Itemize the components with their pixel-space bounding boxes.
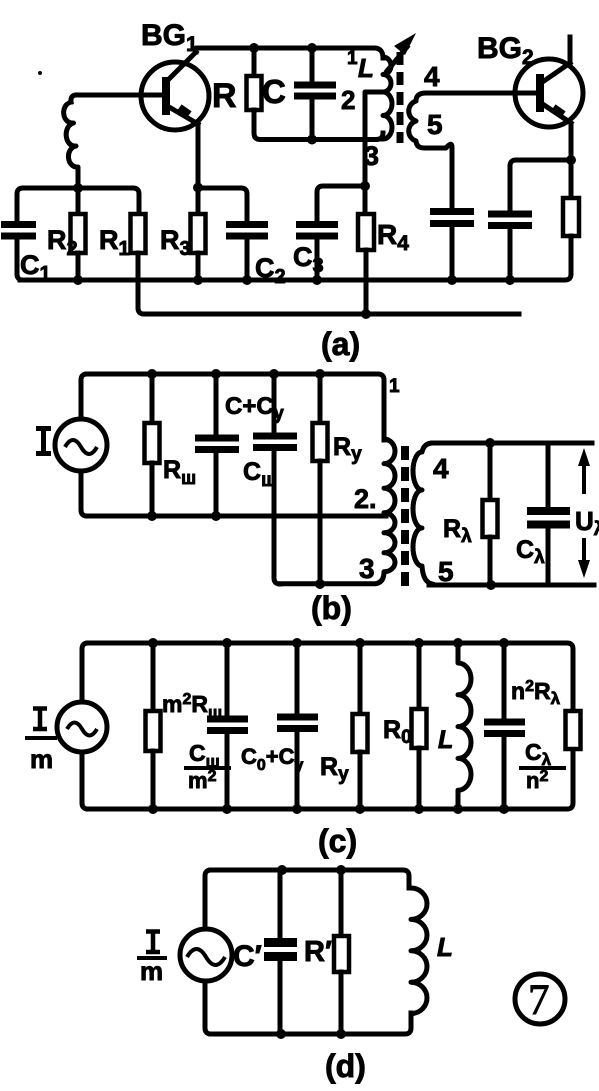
transistor BG2 bbox=[515, 59, 583, 127]
resistor R' bbox=[339, 870, 344, 936]
junction emitter cap bottom bbox=[505, 275, 515, 285]
svg-text:2.: 2. bbox=[354, 484, 377, 514]
junction Rsh top bbox=[147, 369, 157, 379]
junction R' top bbox=[336, 865, 346, 875]
capacitor on winding 5 lead bbox=[430, 212, 474, 224]
junction Rsh bottom bbox=[147, 511, 157, 521]
junction C+Cy bottom bbox=[211, 511, 221, 521]
wire source top (c) bbox=[82, 643, 88, 702]
junction Csh/m2 bottom bbox=[222, 804, 232, 814]
node dot emitter junction bbox=[566, 155, 576, 165]
inductor L (c) bbox=[458, 643, 471, 809]
tuning arrow bbox=[387, 47, 407, 71]
secondary top rail (b) bbox=[433, 441, 592, 446]
resistor m2Rsh bbox=[151, 643, 156, 711]
source I/m bbox=[57, 702, 107, 752]
capacitor Csh/m2 bbox=[225, 643, 230, 716]
svg-text:1: 1 bbox=[347, 48, 358, 69]
node dot emitter BG1 bbox=[193, 183, 203, 193]
svg-text:C′: C′ bbox=[233, 940, 262, 973]
wire Csh bottom to lower rail bbox=[274, 450, 280, 584]
resistor R1 bbox=[131, 214, 146, 253]
wire source bottom bbox=[81, 471, 87, 516]
svg-text:C: C bbox=[262, 73, 286, 110]
resistor R3 bbox=[196, 188, 201, 214]
resistor R2 bbox=[76, 188, 81, 214]
svg-text:L: L bbox=[438, 726, 453, 754]
capacitor C0+Cy bbox=[295, 643, 300, 714]
junction m2Rsh top bbox=[148, 638, 158, 648]
top rail (d) bbox=[211, 870, 409, 888]
bottom rail (d) bbox=[211, 1013, 411, 1034]
svg-text:R: R bbox=[212, 77, 237, 115]
capacitor C+Cy bbox=[214, 374, 219, 435]
junction R2 bottom bbox=[73, 275, 83, 285]
label I/m bbox=[33, 709, 47, 730]
wire to C2 bbox=[198, 188, 247, 222]
node dot C bottom bbox=[307, 135, 317, 145]
resistor n2Rl bbox=[566, 711, 581, 749]
wire source top (d) bbox=[205, 870, 211, 929]
left bias rail bbox=[17, 188, 139, 222]
svg-text:m: m bbox=[140, 956, 163, 986]
wire BG2 collector up bbox=[568, 37, 573, 64]
capacitor C3 bbox=[296, 225, 338, 237]
node dot C top bbox=[307, 43, 317, 53]
svg-text:7: 7 bbox=[528, 977, 550, 1024]
junction bypass cap bottom bbox=[447, 275, 457, 285]
junction C3 bottom bbox=[312, 275, 322, 285]
capacitor C bbox=[310, 48, 315, 139]
junction C' top bbox=[277, 865, 287, 875]
junction Csh top bbox=[269, 369, 279, 379]
node dot tap junction bbox=[360, 181, 370, 191]
capacitor emitter bypass BG2 bbox=[488, 214, 532, 226]
node dot Rl bottom bbox=[486, 580, 496, 590]
resistor emitter BG2 bbox=[569, 160, 574, 198]
node dot Rl top bbox=[485, 438, 495, 448]
node dot R top bbox=[249, 43, 259, 53]
capacitor C' bbox=[278, 870, 283, 938]
wire R bottom to winding bottom rail bbox=[254, 110, 383, 140]
svg-text:(b): (b) bbox=[311, 590, 352, 626]
node dot coil bottom bbox=[73, 183, 83, 193]
emitter line BG1 down bbox=[196, 124, 201, 187]
resistor Rl bbox=[488, 443, 493, 500]
source I bbox=[55, 419, 107, 471]
svg-text:R′: R′ bbox=[304, 936, 332, 968]
svg-text:L: L bbox=[358, 53, 374, 83]
junction R0 bottom bbox=[414, 804, 424, 814]
bottom rail (c) bbox=[88, 749, 573, 809]
secondary winding (b) bbox=[413, 443, 433, 584]
wire C3 top bbox=[317, 186, 365, 222]
junction Ry top (c) bbox=[355, 638, 365, 648]
inductor base coil bbox=[64, 102, 78, 188]
junction C2 bottom bbox=[242, 275, 252, 285]
bottom rail (a) bbox=[144, 312, 519, 317]
primary winding (b) bbox=[280, 439, 395, 584]
capacitor C2 bbox=[226, 225, 268, 237]
capacitor Cl bbox=[546, 443, 551, 508]
figure number 7 bbox=[515, 974, 565, 1024]
wire base lead and coil to BG1 base bbox=[71, 95, 163, 102]
inductor L (d) bbox=[411, 888, 427, 1014]
svg-text:L: L bbox=[437, 932, 453, 962]
junction C0+Cy top bbox=[292, 638, 302, 648]
wire source bottom (d) bbox=[205, 981, 211, 1034]
junction C+Cy top bbox=[211, 369, 221, 379]
junction m2Rsh bottom bbox=[148, 804, 158, 814]
resistor Ry (b) bbox=[318, 374, 323, 423]
ground rail (a) bbox=[20, 236, 571, 280]
junction L top (c) bbox=[453, 638, 463, 648]
resistor Rsh bbox=[150, 374, 155, 423]
node dot Ry bottom bbox=[315, 579, 325, 589]
junction C' bottom bbox=[276, 1029, 286, 1039]
capacitor Cl/n2 bbox=[502, 643, 507, 719]
svg-text:(a): (a) bbox=[321, 326, 360, 362]
tap2 rail (b) bbox=[87, 514, 386, 519]
svg-text:4: 4 bbox=[433, 453, 449, 484]
ink speck bbox=[38, 71, 42, 75]
capacitor Csh bbox=[272, 374, 277, 433]
wire source bottom (c) bbox=[82, 752, 88, 809]
svg-text:1: 1 bbox=[389, 376, 400, 397]
transformer core (b) bbox=[401, 446, 409, 588]
junction L bottom (c) bbox=[453, 804, 463, 814]
resistor R4 bbox=[363, 186, 368, 214]
svg-text:5: 5 bbox=[438, 556, 454, 587]
resistor R0 bbox=[417, 643, 422, 709]
output arrow Ul bbox=[582, 456, 586, 570]
wire collector to top rail bbox=[196, 48, 383, 58]
svg-text:(c): (c) bbox=[318, 823, 357, 859]
transformer core (a) bbox=[397, 52, 404, 143]
svg-text:3: 3 bbox=[359, 553, 375, 584]
node dot R4 bottom bbox=[361, 309, 371, 319]
wire tap 2 down bbox=[365, 92, 383, 186]
resistor R bbox=[252, 48, 257, 76]
secondary bottom rail (b) bbox=[429, 583, 594, 588]
source I/m (d) bbox=[180, 929, 232, 981]
capacitor C1 bbox=[1, 225, 36, 237]
svg-text:2: 2 bbox=[341, 85, 355, 115]
junction C0+Cy bottom bbox=[292, 804, 302, 814]
top rail (b) bbox=[87, 374, 384, 440]
svg-text:(d): (d) bbox=[325, 1048, 366, 1084]
transformer secondary winding bbox=[409, 93, 537, 209]
transformer primary winding La bbox=[383, 57, 392, 139]
junction R' bottom bbox=[336, 1029, 346, 1039]
label I bbox=[36, 429, 51, 454]
junction R0 top bbox=[414, 638, 424, 648]
junction Ry top bbox=[315, 369, 325, 379]
wire to bypass cap bbox=[510, 160, 571, 211]
junction Cl/n2 top bbox=[499, 638, 509, 648]
junction R3 bottom bbox=[193, 275, 203, 285]
transistor BG1 bbox=[141, 52, 209, 130]
junction Ry bottom (c) bbox=[355, 804, 365, 814]
svg-text:4: 4 bbox=[424, 61, 440, 92]
wire source top bbox=[81, 374, 87, 419]
junction Csh/m2 top bbox=[222, 638, 232, 648]
label I/m (d) bbox=[146, 932, 160, 953]
top rail (c) bbox=[88, 643, 573, 711]
resistor Ry (c) bbox=[358, 643, 363, 714]
svg-text:5: 5 bbox=[427, 109, 443, 140]
wire BG2 emitter down bbox=[569, 124, 574, 160]
junction Cl/n2 bottom bbox=[499, 804, 509, 814]
svg-text:m: m bbox=[30, 744, 53, 774]
